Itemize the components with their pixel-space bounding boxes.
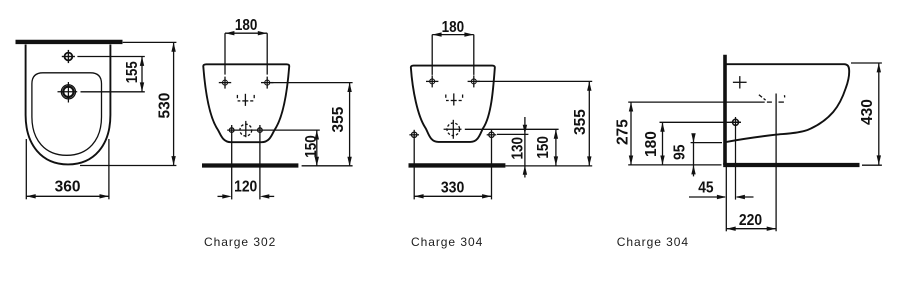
dimension 95 (side view) bbox=[691, 133, 722, 176]
drain hole hidden (front 302) bbox=[240, 121, 252, 137]
left mounting hole (front 304) bbox=[426, 75, 438, 87]
bidet body profile (side view) bbox=[726, 64, 849, 142]
svg-text:Charge 304: Charge 304 bbox=[411, 235, 483, 249]
dimension 120 (front 302) bbox=[218, 194, 275, 198]
drain hole hidden (front 304) bbox=[444, 120, 462, 139]
floor bar (side view) bbox=[723, 163, 859, 167]
drain hole (top view) bbox=[58, 82, 78, 103]
svg-text:150: 150 bbox=[303, 135, 320, 158]
svg-text:45: 45 bbox=[698, 180, 714, 197]
dimension 355 (front 304) bbox=[477, 81, 593, 165]
fixing hole (side view) bbox=[730, 117, 741, 200]
dimension 275 (side view) bbox=[628, 102, 765, 165]
dimension 130 (front 304) bbox=[497, 117, 528, 178]
dimension 180 (front 302) bbox=[225, 31, 267, 75]
svg-text:150: 150 bbox=[535, 136, 552, 159]
svg-text:330: 330 bbox=[441, 179, 465, 196]
bidet body outline (front 302) bbox=[203, 64, 289, 142]
svg-text:155: 155 bbox=[124, 61, 141, 83]
floor bar (front 304) bbox=[409, 163, 506, 167]
horizontal centre line through holes and 150 extension (front 302) bbox=[227, 129, 320, 131]
dimension 155 (top view) bbox=[77, 57, 144, 92]
dimension 330 (front 304) bbox=[414, 194, 491, 198]
svg-text:275: 275 bbox=[614, 119, 631, 145]
floor extension line (front 304) bbox=[505, 165, 592, 167]
right fixing hole (front 302) bbox=[258, 128, 263, 133]
right fixing hole (front 304) bbox=[487, 132, 497, 137]
dimension 220 (side view) bbox=[726, 227, 776, 231]
svg-text:180: 180 bbox=[643, 131, 660, 157]
svg-text:180: 180 bbox=[442, 19, 465, 36]
left fixing hole (front 302) bbox=[229, 128, 234, 133]
bidet outer outline (top view) bbox=[26, 45, 111, 165]
extension lines for 120 (front 302) bbox=[232, 125, 260, 199]
dimension 180 (side view) bbox=[660, 122, 742, 165]
floor extension line (front 302) bbox=[302, 165, 353, 167]
wall line (side view) bbox=[723, 55, 727, 165]
dimension 430 (side view) bbox=[851, 63, 882, 165]
svg-text:Charge 304: Charge 304 bbox=[617, 235, 689, 249]
centre mark (front 302) bbox=[237, 94, 254, 106]
svg-text:130: 130 bbox=[509, 137, 526, 160]
right mounting hole (front 302) bbox=[261, 77, 273, 89]
svg-text:180: 180 bbox=[235, 17, 258, 34]
svg-text:95: 95 bbox=[671, 144, 688, 160]
svg-text:355: 355 bbox=[572, 109, 589, 135]
dimension 150 (front 302) bbox=[315, 130, 319, 166]
dimension 180 (front 304) bbox=[432, 32, 474, 75]
extension lines for 330 (front 304) bbox=[414, 130, 491, 200]
svg-text:Charge 302: Charge 302 bbox=[204, 235, 276, 249]
svg-text:360: 360 bbox=[55, 179, 81, 196]
drain centre mark hidden (side view) bbox=[759, 94, 785, 232]
right mounting hole (front 304) bbox=[468, 75, 480, 87]
dimension 355 (front 302) bbox=[270, 83, 353, 167]
left fixing hole (front 304) bbox=[409, 132, 419, 137]
dimension 150 (front 304) bbox=[465, 129, 559, 166]
wall bar (top view) bbox=[16, 40, 123, 44]
svg-text:530: 530 bbox=[156, 93, 173, 119]
tap hole (top view) bbox=[62, 50, 75, 63]
svg-text:355: 355 bbox=[330, 106, 347, 132]
dimension 530 (top view) bbox=[80, 42, 176, 165]
svg-text:120: 120 bbox=[234, 179, 257, 196]
cross mark (side view) bbox=[733, 76, 747, 88]
centre mark (front 304) bbox=[446, 93, 463, 105]
dimension 360 (top view) bbox=[26, 139, 109, 199]
svg-text:220: 220 bbox=[739, 212, 762, 229]
floor extension line (side view) bbox=[862, 164, 882, 166]
svg-text:430: 430 bbox=[859, 99, 876, 125]
bidet inner rim outline (top view) bbox=[32, 73, 102, 156]
bidet body outline (front 304) bbox=[411, 66, 495, 142]
dimension 45 (side view) bbox=[689, 167, 754, 232]
left mounting hole (front 302) bbox=[219, 77, 231, 89]
floor bar (front 302) bbox=[202, 163, 298, 167]
